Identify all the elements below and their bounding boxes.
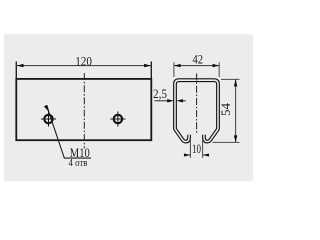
svg-text:2,5: 2,5 xyxy=(153,86,167,101)
svg-text:120: 120 xyxy=(75,53,92,68)
svg-text:54: 54 xyxy=(218,103,233,117)
svg-text:10: 10 xyxy=(192,141,201,156)
svg-text:4 отв: 4 отв xyxy=(69,158,88,169)
svg-text:42: 42 xyxy=(192,52,203,67)
